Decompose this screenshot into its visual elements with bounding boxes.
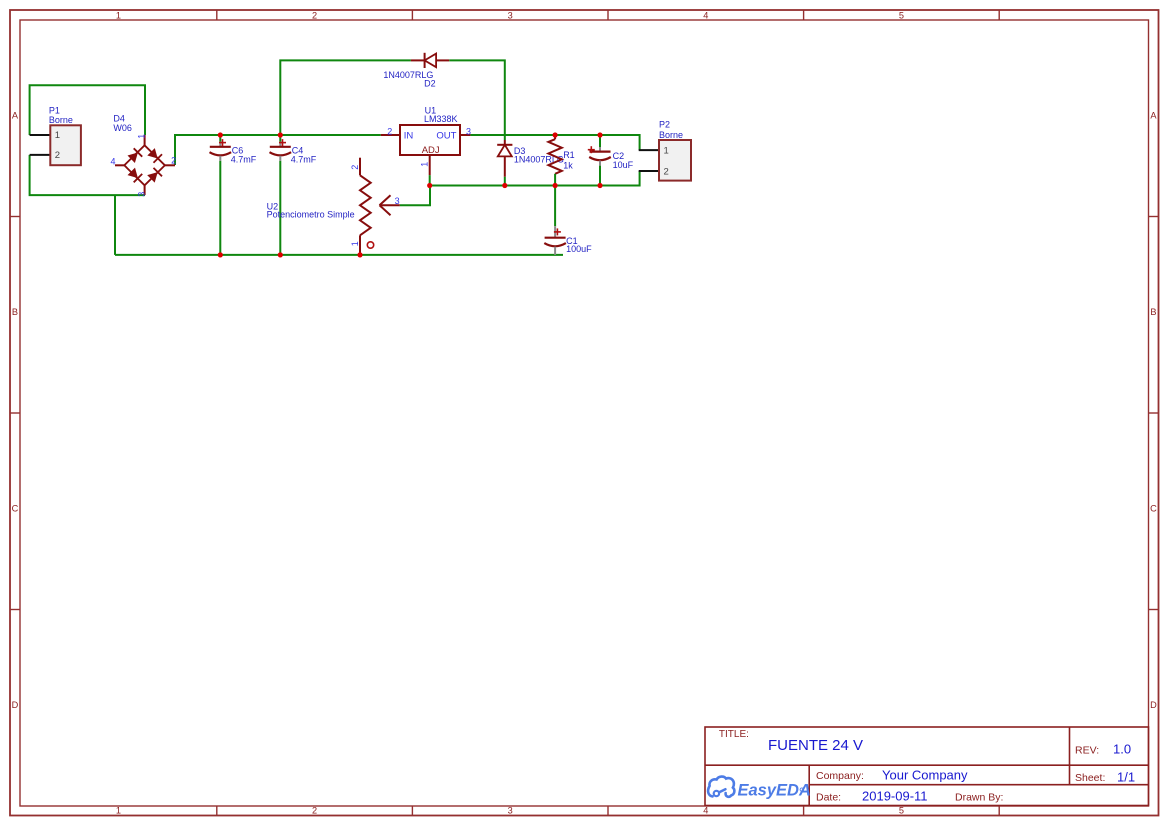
wire bottom rail <box>115 254 563 256</box>
svg-text:B: B <box>12 307 18 317</box>
svg-text:1: 1 <box>116 806 121 816</box>
svg-text:1: 1 <box>55 130 60 141</box>
wire C6 bottom <box>219 161 221 255</box>
wire C2 top <box>599 135 601 147</box>
svg-text:Borne: Borne <box>49 115 73 125</box>
svg-text:Drawn By:: Drawn By: <box>955 792 1003 804</box>
wire ground drop <box>114 195 116 255</box>
svg-text:ADJ: ADJ <box>422 145 440 156</box>
svg-text:4: 4 <box>703 806 708 816</box>
svg-text:4: 4 <box>703 11 708 21</box>
svg-text:LM338K: LM338K <box>424 114 458 124</box>
svg-text:2: 2 <box>171 156 176 166</box>
svg-text:R1: R1 <box>563 150 575 160</box>
svg-text:P1: P1 <box>49 106 60 116</box>
wire OUT rail <box>470 135 639 150</box>
svg-text:2019-09-11: 2019-09-11 <box>862 789 928 804</box>
svg-text:Company:: Company: <box>816 770 864 782</box>
svg-text:Sheet:: Sheet: <box>1075 772 1105 784</box>
wire D2 loop right <box>449 60 505 140</box>
svg-text:3: 3 <box>508 11 513 21</box>
wire P1.1 to bridge pin1 <box>30 85 145 135</box>
svg-text:1.0: 1.0 <box>1113 742 1131 757</box>
svg-text:Borne: Borne <box>659 130 683 140</box>
svg-text:1k: 1k <box>563 161 573 171</box>
svg-text:B: B <box>1150 307 1156 317</box>
svg-text:C: C <box>1150 504 1157 514</box>
wire C4 top <box>279 135 281 142</box>
svg-text:REV:: REV: <box>1075 745 1099 757</box>
wire bridge pin2 to IN rail <box>175 135 381 165</box>
svg-text:D: D <box>1150 700 1157 710</box>
svg-text:1: 1 <box>350 241 360 246</box>
svg-text:1: 1 <box>136 134 146 139</box>
wire wiper to ADJ <box>400 186 430 206</box>
svg-text:A: A <box>12 111 19 121</box>
diode D2 <box>383 53 449 89</box>
wire C4 bottom <box>279 161 281 255</box>
svg-text:FUENTE 24 V: FUENTE 24 V <box>768 737 863 754</box>
capacitor C4 <box>270 139 317 164</box>
svg-text:C: C <box>12 504 19 514</box>
svg-text:W06: W06 <box>113 123 132 133</box>
svg-text:OUT: OUT <box>436 131 456 142</box>
wire D2 loop left <box>280 60 411 135</box>
wire C1 top <box>554 186 556 227</box>
connector P2 <box>639 120 691 181</box>
svg-text:TITLE:: TITLE: <box>719 729 749 740</box>
svg-text:1: 1 <box>664 145 669 156</box>
title block <box>705 727 1149 806</box>
svg-text:A: A <box>1150 111 1157 121</box>
svg-text:1: 1 <box>419 162 429 167</box>
capacitor C2 <box>588 146 634 170</box>
svg-text:5: 5 <box>899 806 904 816</box>
potentiometer U2 <box>267 158 400 255</box>
svg-text:Date:: Date: <box>816 792 841 804</box>
svg-text:2: 2 <box>55 150 60 161</box>
wire C6 top <box>219 135 221 142</box>
wire P1.2 to bridge pin3 <box>30 155 145 195</box>
svg-text:3: 3 <box>508 806 513 816</box>
svg-text:10uF: 10uF <box>613 160 634 170</box>
wire C2 bottom <box>599 166 601 186</box>
diode D3 <box>497 140 564 177</box>
wire ADJ rail <box>430 171 640 186</box>
svg-text:3: 3 <box>466 126 471 136</box>
connector P1 <box>30 106 81 166</box>
svg-text:5: 5 <box>899 11 904 21</box>
EasyEDA logo <box>708 777 811 800</box>
svg-text:2: 2 <box>387 126 392 136</box>
wire D3 bottom <box>504 177 506 186</box>
svg-text:D: D <box>12 700 19 710</box>
capacitor C1 <box>544 226 592 255</box>
svg-text:2: 2 <box>312 11 317 21</box>
svg-text:Potenciometro Simple: Potenciometro Simple <box>267 209 355 219</box>
svg-text:2: 2 <box>350 165 360 170</box>
resistor R1 <box>548 135 574 186</box>
svg-text:Your Company: Your Company <box>882 768 968 783</box>
svg-text:2: 2 <box>312 806 317 816</box>
svg-text:3: 3 <box>395 196 400 206</box>
regulator U1 LM338K <box>381 106 471 175</box>
svg-text:D2: D2 <box>424 79 436 89</box>
bridge rectifier D4 <box>110 113 176 196</box>
svg-text:2: 2 <box>664 166 669 177</box>
svg-text:3: 3 <box>136 192 146 197</box>
svg-text:4: 4 <box>110 157 115 167</box>
svg-text:P2: P2 <box>659 120 670 130</box>
svg-text:1: 1 <box>116 11 121 21</box>
svg-text:4.7mF: 4.7mF <box>291 154 317 164</box>
junction dots <box>218 132 603 257</box>
svg-text:100uF: 100uF <box>566 244 592 254</box>
capacitor C6 <box>210 139 257 164</box>
svg-text:1/1: 1/1 <box>1117 770 1135 785</box>
svg-text:4.7mF: 4.7mF <box>231 154 257 164</box>
svg-text:IN: IN <box>404 131 414 142</box>
